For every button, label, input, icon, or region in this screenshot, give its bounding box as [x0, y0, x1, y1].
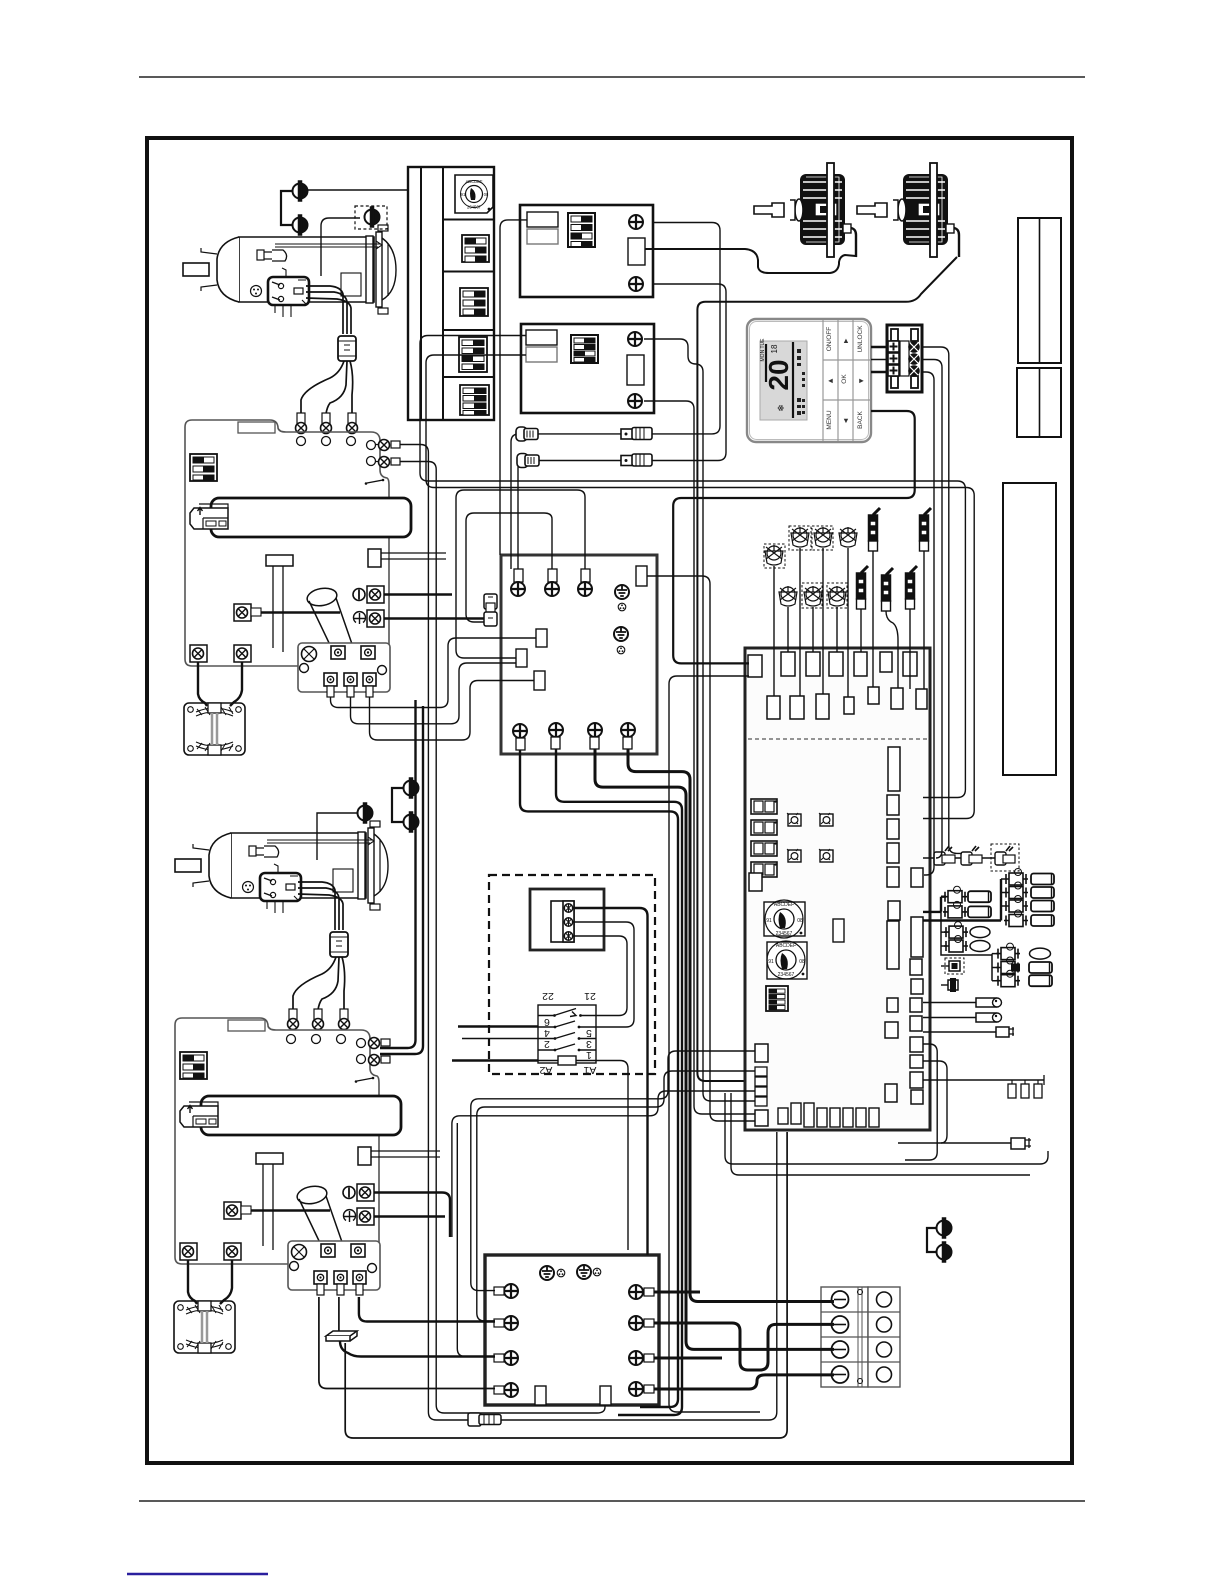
wire rail A1 down — [596, 1061, 628, 1251]
wire contact rail A2 left — [452, 1059, 538, 1061]
PCB right edge connector column — [911, 868, 923, 887]
board U1 label strip — [238, 422, 275, 433]
ground in dashed box — [355, 206, 387, 229]
wire ground bracket ML — [392, 788, 403, 822]
wire TB3 top to CN-R2 — [922, 347, 962, 853]
compressor COMP1 assembly — [183, 225, 396, 434]
temp sensor TH4 — [839, 527, 857, 547]
PB right screws — [629, 1285, 643, 1299]
DIP switch CB-A — [568, 213, 595, 247]
K1 bottom pins — [516, 738, 525, 750]
wire K1 bottom screw3 to TB4 row3 — [595, 749, 834, 1349]
terminal T-U1b — [354, 610, 385, 627]
wire CB-B screw1 to FM2 — [697, 257, 957, 1081]
wire TB-dash screw2 to rail5 — [573, 922, 634, 1027]
svg-text:2: 2 — [544, 1038, 550, 1050]
pressure sensor PS1 — [869, 508, 881, 551]
pushbutton SB1 — [787, 813, 801, 826]
unit board U2 assembly — [174, 1018, 401, 1353]
7-segment display DS3 — [751, 841, 777, 856]
svg-text:91: 91 — [766, 918, 772, 924]
svg-text:▲: ▲ — [842, 336, 849, 345]
page bottom rule — [139, 1500, 1085, 1502]
wire channel verticals unit mid — [380, 700, 416, 1048]
svg-text:1: 1 — [586, 1049, 592, 1061]
DIP switch SW2 — [460, 288, 488, 316]
wire T-U2b right — [374, 1215, 445, 1217]
float switch FS — [923, 1075, 1044, 1098]
wire TH1 to PCB — [773, 566, 775, 696]
DIP selector column panel — [408, 167, 494, 420]
switch symbol on U1 — [367, 480, 383, 483]
ground pair mid left — [404, 778, 419, 798]
svg-text:▼: ▼ — [842, 416, 849, 425]
temp sensor TH5 — [779, 586, 797, 606]
inline connector CN-BTM on loop — [468, 1413, 501, 1426]
wire under-PCB branch 2 — [731, 1093, 1030, 1175]
control box CB-B — [521, 324, 654, 413]
wire PS2 to PCB — [923, 551, 925, 689]
wire CB-B stub2 long loop right — [426, 355, 974, 819]
wire K1 right connector to PCB — [647, 576, 755, 1121]
wire vertical to PB row3 — [457, 1123, 495, 1357]
inline connector CN-R1b — [961, 846, 982, 865]
svg-text:3: 3 — [586, 1038, 592, 1050]
PB left screws — [504, 1284, 518, 1298]
unit board U1 assembly — [184, 420, 411, 755]
screw box U1 bl2 — [234, 645, 251, 662]
svg-text:MENU: MENU — [826, 410, 833, 429]
terminal T-U1a — [353, 586, 384, 603]
svg-text:MON TUE: MON TUE — [760, 338, 766, 362]
inline connector CN-K1 left — [484, 594, 497, 626]
PCB second connector row — [767, 696, 780, 719]
pushbutton SB3 — [787, 849, 801, 862]
inline connector pair CN4 on row2 — [621, 454, 652, 466]
DIP switch SW1 — [462, 235, 489, 262]
wire PS3 to PCB — [860, 609, 862, 652]
wire PCB to CN-R1a/b/R2 — [923, 857, 995, 859]
ground pair bottom right — [937, 1218, 952, 1238]
K1 earth terminal 2 — [614, 627, 628, 641]
wire ground bracket BR — [927, 1228, 936, 1252]
wire T-U1b to CN-K1 — [384, 617, 484, 619]
wire board1 fuse right — [381, 553, 446, 559]
svg-text:22: 22 — [542, 990, 554, 1002]
wire CB-B stub1 long loop right — [420, 336, 965, 798]
capacitor C1 — [306, 586, 352, 647]
page top rule — [139, 76, 1085, 78]
wire board1 lug2 to PB slot2 — [400, 462, 605, 1414]
inline connector CN-R2 dashed — [991, 844, 1019, 871]
svg-text:BACK: BACK — [857, 410, 864, 428]
connector CN-R4 — [941, 978, 958, 992]
wire ground bracket — [281, 191, 292, 225]
compressor COMP1 terminal box — [268, 277, 309, 305]
wire KM1 pin2 to K1 — [351, 663, 517, 724]
svg-text:►: ► — [858, 376, 865, 385]
temp sensor TH6 — [802, 583, 822, 608]
fan motor FM2 lead elbow — [948, 228, 959, 257]
screw CB-B-1 — [628, 332, 642, 346]
screw U1-R1 — [379, 440, 390, 451]
inline connector pair CN3 on row2 — [517, 454, 539, 468]
contact block KA1 — [538, 990, 596, 1076]
pushbutton SB4 — [819, 849, 833, 862]
solenoid valve group SV1-4 — [923, 869, 1054, 927]
power supply box PB — [485, 1255, 659, 1405]
control box CB-A — [520, 205, 653, 297]
wire RC to TB3 — [871, 346, 888, 349]
svg-text:20: 20 — [763, 359, 794, 390]
wire contact rail 6 left — [458, 1025, 538, 1027]
PB bottom slots — [535, 1386, 546, 1405]
wire S1 PCB to PB row1 — [471, 1051, 755, 1291]
ground pair left of compressor1 — [293, 181, 308, 201]
screw CB-B-2 — [628, 394, 642, 408]
ground single unit2 — [358, 803, 373, 823]
wire TB-dash screw1 down — [573, 908, 648, 1255]
wire PB right row4 to TB4 row4 — [654, 1375, 834, 1389]
wire S2 PCB to PB row2 — [477, 1071, 755, 1321]
svg-text:ABCDEF: ABCDEF — [776, 943, 796, 949]
K1 top pins — [514, 569, 523, 582]
temp sensor TH1 — [764, 544, 785, 568]
fan motor FM1 — [754, 163, 856, 257]
pressure sensor PS2 — [920, 508, 932, 551]
wire TH5 to PCB — [787, 607, 789, 652]
pushbutton SB2 — [819, 813, 833, 826]
wire contact rail 4 left — [462, 1038, 538, 1040]
terminal box in dashed box — [530, 889, 604, 950]
svg-text:4: 4 — [544, 1027, 550, 1039]
wire K1 pin2 loop left — [466, 513, 552, 622]
wire ground down channel — [308, 189, 408, 191]
wire U2 mid screw right — [251, 1209, 330, 1211]
solenoid valve group SV5-6 — [923, 886, 991, 918]
wire KM1 pin1 to K1 — [331, 638, 537, 708]
wire CB-B screw2 down to PCB — [644, 401, 755, 1114]
reactor L1 plug — [190, 504, 228, 529]
remote controller RC — [747, 319, 871, 442]
wire terminal box to dashed ground — [321, 218, 360, 276]
svg-text:08: 08 — [799, 959, 805, 965]
wire TH2 to PCB — [799, 548, 801, 696]
wire KM2 pin3 to PB row2 — [359, 1297, 495, 1322]
inline connector pair CN2 on row1 — [621, 428, 652, 440]
valve group SV7 + PSW3 — [941, 943, 1052, 987]
svg-text:18: 18 — [770, 344, 779, 353]
temp sensor TH2 — [789, 526, 811, 550]
wire PCB topleft in2 — [669, 676, 760, 1412]
wire PB right row3 stub — [654, 1357, 722, 1360]
svg-text:5: 5 — [586, 1027, 592, 1039]
compressor COMP1 discharge pipe — [275, 241, 382, 249]
wire CB-A screw2 loop row2 — [518, 284, 726, 569]
wire CB-A relay to FM1 — [645, 236, 856, 273]
wire K1 bottom screw4 to TB4 row1 — [628, 749, 834, 1302]
wire PS1 to PCB — [872, 551, 874, 687]
PCB right inner connector column — [888, 747, 900, 791]
pressure sensor PS5 — [906, 566, 918, 609]
svg-text:A1: A1 — [583, 1064, 596, 1076]
pressure sensor PS4 — [882, 568, 894, 611]
DIP switch SW4 — [460, 385, 489, 415]
transformer TR1 — [184, 703, 245, 755]
dashed connector CN-R3 — [941, 958, 964, 974]
wire PB right row2 weave to TB4 row2 — [654, 1323, 834, 1370]
connector CN-COMP1 — [338, 336, 356, 361]
screw U1-R2 — [379, 457, 390, 468]
compressor COMP1 suction pipe — [263, 250, 287, 261]
wire K1 bottom screw2 bundle — [556, 749, 682, 1415]
DIP switch PCB — [766, 986, 788, 1011]
wire plate to PB row3 — [340, 1341, 495, 1357]
7-segment display DS4 — [751, 862, 777, 877]
RC LCD — [760, 341, 807, 420]
wire U2 fuse right — [371, 1151, 440, 1157]
PCB top connector row — [748, 655, 762, 677]
svg-text:08: 08 — [484, 192, 489, 197]
wire KM2 plate big bottom loop — [345, 1132, 787, 1438]
field terminal block TB4 — [821, 1287, 900, 1387]
plug CN-R6 — [898, 1138, 1031, 1149]
svg-text:ABCDEF: ABCDEF — [774, 902, 794, 908]
screw box U1 bl1 — [190, 645, 207, 662]
wire CB-A rect1 left — [500, 220, 527, 555]
7-segment display DS2 — [751, 820, 777, 835]
wire CB-B screw1 jog down to PCB — [644, 339, 755, 1101]
wire PS4 to PCB — [886, 611, 898, 688]
inline connector CN-R1a — [934, 846, 955, 865]
wire PS5 to PCB — [909, 609, 911, 689]
wire TB3 bottom down channel — [922, 372, 934, 875]
temp sensor TH3 — [812, 526, 833, 550]
bar component U1 — [266, 555, 293, 566]
main PCB A1 — [745, 648, 930, 1130]
svg-text:21: 21 — [584, 990, 596, 1002]
K1 bottom screws — [513, 724, 527, 738]
contactor KM1 — [298, 643, 390, 697]
screw CB-A-1 — [629, 215, 643, 229]
compressor COMP1 sight glass — [251, 286, 262, 297]
IC chip — [833, 919, 844, 942]
screw box U1 mid — [234, 604, 261, 621]
wire RC BACK down to CN-R1 — [673, 411, 915, 663]
7-segment display DS1 — [751, 799, 777, 814]
wire TH4 to PCB — [847, 548, 849, 697]
wire U1 circles to screws — [376, 445, 380, 462]
wire PCB right hook 2 — [923, 1061, 947, 1143]
footer blue link line — [127, 1573, 268, 1575]
svg-text:91: 91 — [461, 192, 466, 197]
temp sensor TH7 — [827, 583, 847, 608]
DIP switch CB-B — [571, 335, 598, 363]
relay slot CB-B — [627, 355, 644, 385]
wire T-U2a right — [374, 1193, 450, 1238]
rotary switch SW0 — [455, 175, 493, 213]
reactor L1 — [211, 498, 411, 537]
svg-text:ON/OFF: ON/OFF — [826, 327, 833, 352]
K1 left connectors — [536, 629, 547, 647]
K1 earth terminal 1 — [615, 585, 629, 599]
svg-text:UNLOCK: UNLOCK — [857, 325, 864, 353]
pin lugs above board1 — [297, 413, 305, 426]
wire TH3 to PCB — [822, 548, 824, 694]
svg-text:234567: 234567 — [778, 972, 795, 978]
PCB bottom connector row — [778, 1108, 788, 1124]
board U1 edge circles — [297, 437, 306, 446]
compressor COMP2 assembly — [175, 821, 388, 1030]
svg-text:6: 6 — [544, 1016, 550, 1028]
svg-text:08: 08 — [797, 918, 803, 924]
wire TB3 mid to PCB via channel — [922, 360, 942, 859]
DIP switch U1 — [190, 454, 217, 481]
svg-text:◄: ◄ — [827, 376, 834, 385]
svg-text:234567: 234567 — [776, 931, 793, 937]
contactor KM1 bottom pins — [327, 686, 334, 697]
relay box K1 — [501, 555, 657, 754]
DIP switch SW3 — [459, 337, 487, 372]
svg-text:❄: ❄ — [776, 404, 786, 412]
PCB mid-left connector for power — [749, 873, 762, 891]
tall box TB-R2 right — [1003, 483, 1056, 775]
earth terminals PB — [540, 1266, 554, 1280]
fuse block U1 — [368, 549, 381, 567]
svg-text:OK: OK — [841, 374, 848, 384]
tall box TB-R1 top right — [1017, 218, 1061, 437]
wire board1 lug1 big bottom loop — [400, 445, 777, 1421]
screw CB-A-2 — [629, 277, 643, 291]
dashed option box — [489, 875, 655, 1074]
relay slot CB-A — [628, 238, 645, 265]
wire connector to board1 plugs — [301, 361, 353, 414]
PCB left edge connectors — [755, 1044, 768, 1062]
rotary switch RS1 — [764, 900, 805, 938]
wire K1 bottom screw1 bundle — [520, 750, 678, 1407]
compressor COMP1 nameplate — [341, 273, 361, 296]
heat sink plate unit2 — [326, 1331, 357, 1341]
svg-text:A2: A2 — [539, 1064, 552, 1076]
wire TH7 to PCB — [836, 607, 838, 652]
fan motor FM2 — [857, 163, 959, 257]
pressure sensor PS3 — [857, 566, 869, 609]
wire U1 mid screw right — [261, 611, 340, 613]
rotary switch RS2 — [767, 941, 807, 979]
wire under-PCB branch 1 — [725, 1093, 1048, 1164]
wire CB-A screw1 loop row1 — [511, 223, 720, 570]
remote terminal block TB3 — [887, 325, 922, 392]
lug stubs right of U1 — [391, 441, 400, 448]
wire K1 pin3 loop left — [456, 490, 585, 658]
K1 top screws — [511, 582, 525, 596]
wire KM1 pin3 to K1 — [370, 681, 535, 741]
RC button grid — [823, 320, 870, 441]
wire TB-dash screw3 to rail21 — [573, 936, 627, 1016]
schematic border frame — [147, 138, 1072, 1463]
inline connector pair CN1 on row1 — [516, 427, 538, 441]
wire T-U1a right — [384, 593, 452, 595]
fan motor FM1 lead elbow — [845, 228, 856, 257]
wire PB right row1 stub — [654, 1291, 700, 1294]
crankcase heater CH1 — [923, 998, 1002, 1007]
wire PCB right hook 1 — [905, 1044, 937, 1160]
crankcase heater CH2 — [923, 1013, 1002, 1022]
wire compressor1 leads to connector — [306, 286, 351, 334]
wire ground unit2 — [317, 813, 357, 860]
wire S3 PCB to unit2 — [452, 1091, 755, 1237]
svg-text:ABCDEF: ABCDEF — [466, 179, 483, 184]
svg-text:91: 91 — [768, 959, 774, 965]
svg-text:234567: 234567 — [467, 205, 482, 210]
wire TH6 to PCB — [812, 607, 814, 652]
wire KM2 pin2 to plate — [338, 1297, 340, 1331]
plug CN-R5 — [923, 1027, 1014, 1037]
wire KM2 pin1 to PB row4 — [319, 1297, 495, 1389]
K1 right connector — [636, 566, 647, 586]
pressure switch group PSW1-2 — [941, 912, 990, 952]
